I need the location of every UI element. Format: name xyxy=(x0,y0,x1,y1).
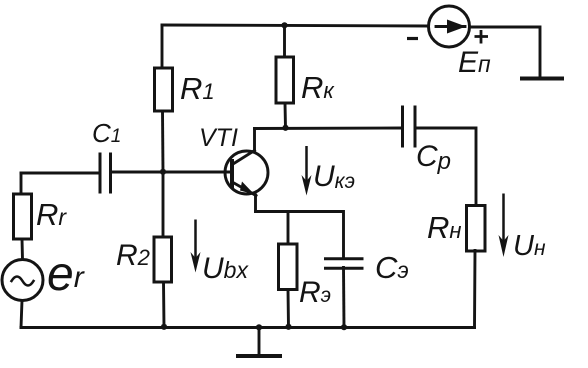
node Re-rail xyxy=(285,324,291,330)
svg-text:Eп: Eп xyxy=(458,46,491,79)
arrow Uvx xyxy=(194,220,197,267)
wire R1 column xyxy=(161,25,164,68)
wire base xyxy=(111,171,232,174)
node R2-rail xyxy=(161,324,167,330)
svg-text:Ubx: Ubx xyxy=(202,252,249,285)
svg-text:VTI: VTI xyxy=(199,124,238,152)
label plus xyxy=(475,30,489,44)
node collector xyxy=(282,125,288,131)
capacitor C1 xyxy=(100,154,111,192)
arrow Un xyxy=(502,194,505,250)
wire top rail right of En xyxy=(470,27,541,79)
wire collector node xyxy=(255,127,403,130)
node ground-rail xyxy=(256,324,262,330)
wire base node to R2 xyxy=(162,172,165,237)
resistor R2 xyxy=(154,237,172,282)
ground (top right) xyxy=(522,77,562,81)
resistor Rk xyxy=(276,57,294,103)
source En U1 xyxy=(429,6,470,47)
wire Rn to rail xyxy=(473,251,476,328)
wire top rail left xyxy=(162,25,428,26)
transistor VT1 xyxy=(225,129,268,212)
capacitor Ce xyxy=(326,259,363,269)
voltage arrows xyxy=(191,146,509,273)
resistor Rn xyxy=(467,206,486,252)
wire Ce to rail xyxy=(342,268,345,328)
source eg xyxy=(2,260,43,301)
wire Rk to collector node xyxy=(284,103,287,128)
resistor Rg xyxy=(14,194,32,239)
label minus xyxy=(407,37,418,40)
resistor Re xyxy=(279,244,298,290)
resistor R1 xyxy=(155,68,173,111)
wire eg to rail xyxy=(21,301,22,328)
wire R1 to base node xyxy=(161,111,164,172)
arrow Uke xyxy=(305,146,308,189)
wire Rg to eg xyxy=(21,239,24,260)
node base xyxy=(160,169,166,175)
wire Rk column xyxy=(283,25,286,57)
wire Cp to Rn xyxy=(416,128,477,206)
wire Re branch xyxy=(287,212,290,245)
node top rail / Rk xyxy=(281,22,287,28)
wire Re to rail xyxy=(287,290,290,328)
wire emitter node xyxy=(256,212,344,258)
wire bottom rail xyxy=(21,326,475,329)
wire input left segment xyxy=(21,172,100,175)
wire Rg column top xyxy=(20,173,23,194)
ground (bottom) xyxy=(258,328,261,356)
node Ce-rail xyxy=(341,324,347,330)
capacitor Cp xyxy=(403,107,416,146)
wire R2 to rail xyxy=(162,282,165,328)
